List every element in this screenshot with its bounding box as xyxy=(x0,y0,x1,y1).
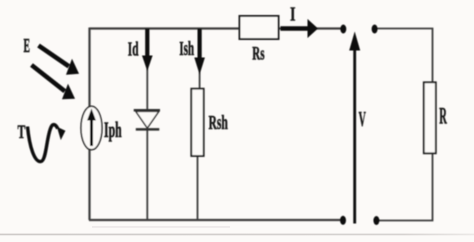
wire left vertical xyxy=(88,28,90,221)
arrow I xyxy=(281,26,309,30)
irradiance arrow 1 xyxy=(39,46,69,67)
current source Iph arrow xyxy=(90,121,93,147)
wire right bottom xyxy=(378,153,433,221)
diode D cathode bar xyxy=(136,128,160,131)
wire diode branch lower xyxy=(146,130,148,221)
artifact band bottom xyxy=(0,234,474,236)
irradiance arrow 2 xyxy=(32,65,65,91)
arrow Ish xyxy=(198,29,202,59)
diode D base bar xyxy=(134,109,160,112)
svg-text:Iph: Iph xyxy=(104,117,122,142)
arrow V line xyxy=(353,50,356,224)
node dot bottom-right xyxy=(373,216,379,225)
wire shunt branch top xyxy=(199,28,201,89)
wire top-left xyxy=(90,27,241,29)
wire right top xyxy=(377,29,433,84)
svg-text:I: I xyxy=(290,4,296,26)
temperature sine wave xyxy=(28,125,58,162)
resistor Rs xyxy=(240,16,279,39)
wire diode branch xyxy=(146,28,148,110)
wire top-middle xyxy=(278,27,341,29)
diode D triangle xyxy=(136,111,159,128)
resistor R xyxy=(424,82,436,153)
current source Iph circle xyxy=(81,106,102,150)
node dot top-right xyxy=(372,25,378,34)
svg-text:R: R xyxy=(439,104,447,129)
wire shunt branch bottom xyxy=(197,156,199,221)
svg-text:Rs: Rs xyxy=(252,44,264,64)
resistor Rsh xyxy=(191,89,203,156)
svg-text:V: V xyxy=(359,107,366,131)
ghost echo under bottom wire xyxy=(92,226,230,227)
arrow Id xyxy=(145,29,149,57)
svg-text:T: T xyxy=(18,122,26,143)
wire bottom xyxy=(89,219,341,221)
svg-text:E: E xyxy=(24,36,31,57)
svg-text:Ish: Ish xyxy=(179,38,194,60)
svg-text:Rsh: Rsh xyxy=(209,112,229,134)
node dot bottom-left xyxy=(340,216,346,225)
node dot top-left xyxy=(340,25,346,34)
svg-text:Id: Id xyxy=(128,38,139,60)
